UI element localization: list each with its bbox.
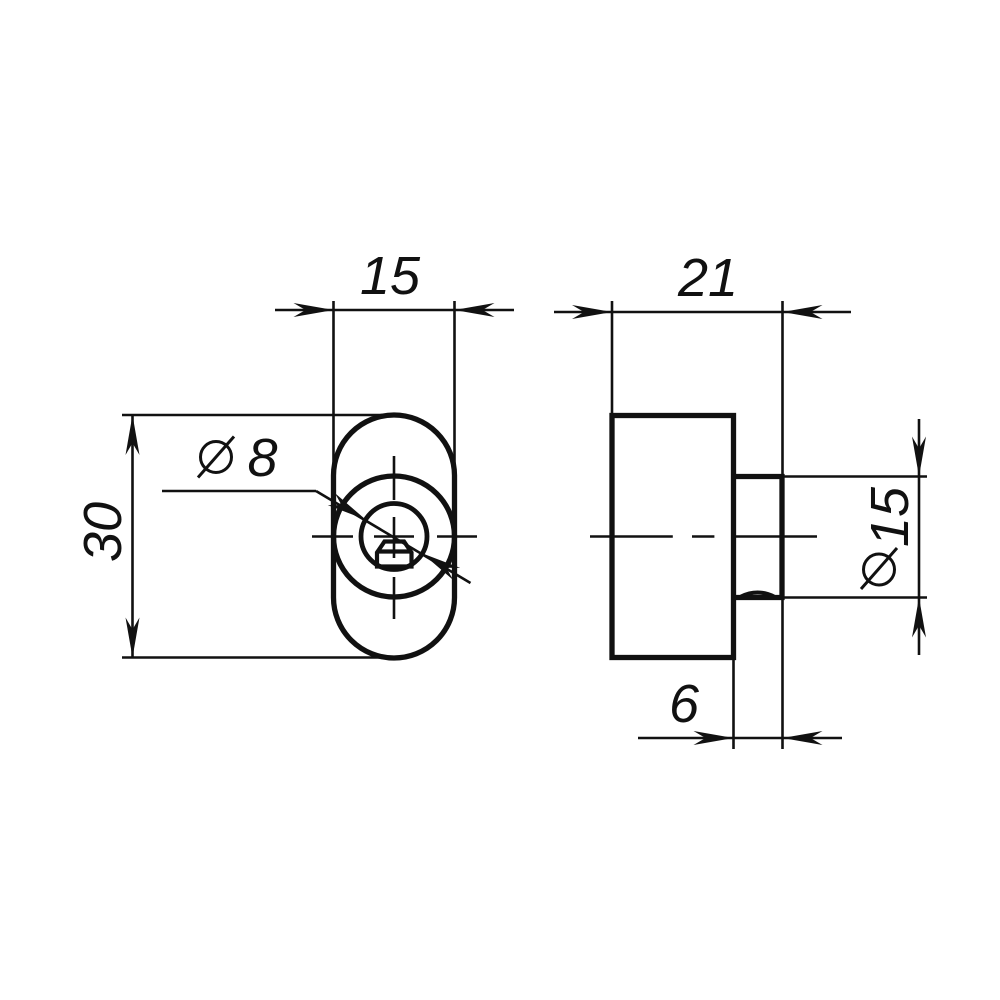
label d15 symbol rotated xyxy=(861,548,897,589)
body rectangle side view xyxy=(612,416,734,658)
dimension d15 xyxy=(782,419,927,655)
arrow 6 right xyxy=(783,731,823,745)
vertical center line xyxy=(393,456,396,619)
ext line left (body left) xyxy=(611,301,614,416)
diagonal leader line xyxy=(316,491,471,583)
ext line top xyxy=(122,414,392,417)
arrow 30 up xyxy=(126,415,140,455)
horizontal center line xyxy=(312,535,477,538)
svg-text:15: 15 xyxy=(860,486,920,547)
arrow d15 bottom xyxy=(912,598,926,638)
dim line 21 xyxy=(554,311,851,314)
dim line 30 xyxy=(131,415,134,658)
keyhole shape xyxy=(377,542,412,567)
dim line d15 xyxy=(918,419,921,655)
svg-text:6: 6 xyxy=(669,674,700,734)
arrow 21 left xyxy=(572,305,612,319)
ext line bottom (shaft bottom) xyxy=(782,596,927,599)
arrow d8 upper-left (points toward circle, down-right) xyxy=(328,493,370,525)
ext line right below shaft xyxy=(781,598,784,750)
arrow 30 down xyxy=(126,618,140,658)
ext line right xyxy=(453,301,456,474)
dimension 30 xyxy=(122,415,392,658)
circle d8 front xyxy=(361,504,427,570)
obround outline (stadium body front view) xyxy=(334,415,455,658)
arrow 15 right xyxy=(455,303,495,317)
ext line bottom xyxy=(122,656,390,659)
dim line 6 xyxy=(638,737,842,740)
circle d15 front xyxy=(334,476,455,597)
keyhole divider xyxy=(377,549,412,553)
dimension 15 xyxy=(275,301,514,474)
shaft neck side view xyxy=(734,477,783,598)
arrow 21 right xyxy=(783,305,823,319)
horizontal center line right view xyxy=(590,535,817,538)
svg-text:15: 15 xyxy=(360,246,421,306)
svg-text:8: 8 xyxy=(247,428,277,488)
ext line top (shaft top) xyxy=(782,475,927,478)
shelf line xyxy=(162,490,316,493)
arrow 6 left xyxy=(694,731,734,745)
arrow 15 left xyxy=(294,303,334,317)
svg-text:21: 21 xyxy=(677,248,738,308)
label d8 symbol xyxy=(198,437,234,478)
dim line 15 xyxy=(275,309,514,312)
ext line right (shaft end) xyxy=(781,301,784,477)
fillet arc on shaft bottom xyxy=(741,593,774,597)
arrow d8 lower-right (points toward circle, up-left) xyxy=(419,547,461,579)
arrow d15 top xyxy=(912,437,926,477)
svg-text:30: 30 xyxy=(73,502,133,562)
ext line left (body right) xyxy=(732,659,735,749)
dimension 6 xyxy=(638,659,842,749)
leader d8 xyxy=(162,491,471,583)
dimension 21 xyxy=(554,301,851,749)
ext line left xyxy=(332,301,335,474)
